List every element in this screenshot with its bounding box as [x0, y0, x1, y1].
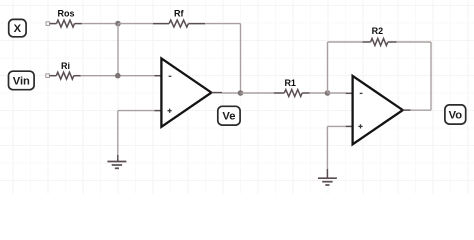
- resistor Rf (feedback of op-amp U1): [153, 9, 205, 27]
- svg-text:R2: R2: [372, 26, 384, 36]
- wire: vertical from U2 inverting junction up to R2 net: [327, 42, 329, 93]
- node Vin label box: [9, 71, 35, 90]
- wire: R2 right lead right then down to U2 output net: [397, 42, 431, 110]
- svg-text:Rf: Rf: [174, 9, 184, 19]
- junction node at x=118 on top net: [115, 21, 121, 27]
- wire: U2 non-inverting input to ground column: [327, 126, 352, 178]
- junction node Ve: [238, 90, 244, 96]
- wire: junction to U2 inverting input: [328, 92, 353, 94]
- wire: Ros right lead to top junction: [82, 23, 118, 25]
- node X label box: [9, 19, 26, 36]
- junction node at U2 inverting input: [325, 90, 331, 96]
- op-amp U2: [353, 76, 403, 144]
- wire: feedback top-left corner to R2 left lead: [328, 41, 363, 43]
- resistor Ros: [50, 9, 82, 27]
- terminal pin of Ros (net X): [46, 22, 50, 26]
- junction node at x=118 on Ri net: [115, 73, 121, 79]
- wire: U2 output to feedback corner: [403, 109, 431, 111]
- resistor Ri: [50, 61, 81, 79]
- node Ve label box: [218, 106, 240, 125]
- wire: U1 non-inverting input to ground column: [118, 111, 162, 162]
- wire: Ri to U1 inverting input: [81, 75, 155, 77]
- svg-text:Ve: Ve: [222, 111, 235, 123]
- wire: top junction to Rf left lead: [118, 23, 153, 25]
- ground symbol under U2 non-inverting input: [318, 178, 337, 185]
- svg-text:Ros: Ros: [57, 9, 74, 19]
- resistor R1: [274, 78, 310, 97]
- ground symbol under U1 non-inverting input: [107, 162, 126, 169]
- wire: Rf right lead right then down to Ve node: [205, 24, 240, 93]
- wire: Ve junction to R1 left lead: [241, 92, 274, 94]
- svg-text:Vin: Vin: [13, 76, 30, 88]
- resistor R2 (feedback of op-amp U2): [363, 26, 397, 46]
- terminal pin of Ri (net Vin): [46, 74, 50, 78]
- wire: vertical from top junction down to Ri net: [117, 24, 119, 76]
- pin stub: U1 inverting input: [154, 75, 161, 77]
- wire: R1 right lead to U2 inverting junction: [310, 92, 328, 94]
- wire: U1 output to Ve junction: [211, 92, 240, 94]
- node Vo label box: [445, 105, 466, 124]
- svg-text:X: X: [14, 23, 22, 35]
- op-amp U1: [161, 58, 211, 126]
- svg-text:R1: R1: [284, 78, 296, 88]
- svg-text:Ri: Ri: [61, 61, 70, 71]
- svg-text:Vo: Vo: [449, 110, 463, 122]
